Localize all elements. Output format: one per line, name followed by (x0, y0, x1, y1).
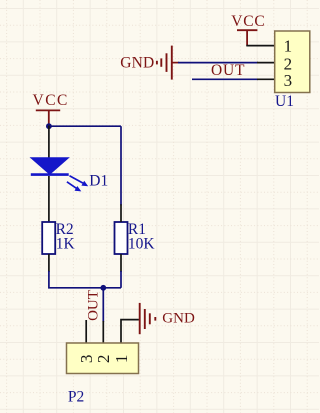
pin U1-3 (257, 78, 275, 80)
pin LED to R2 (48, 176, 50, 222)
connector U1 (275, 31, 310, 93)
svg-text:D1: D1 (89, 173, 108, 190)
svg-text:2: 2 (94, 355, 113, 364)
ground GND (U1) (120, 46, 179, 80)
pin P2-2 (102, 321, 104, 343)
wire GND to U1 pin 2 (178, 62, 258, 64)
LED D1 (31, 158, 88, 191)
wire/pin VCC node down to LED (48, 126, 50, 159)
pin P2-3 (85, 320, 87, 343)
svg-text:GND: GND (162, 311, 195, 327)
pin R1 top (120, 204, 122, 222)
svg-text:U1: U1 (275, 93, 294, 110)
svg-text:OUT: OUT (85, 290, 101, 321)
wire R1 to bottom rail (120, 271, 122, 288)
svg-text:GND: GND (120, 54, 154, 71)
svg-text:VCC: VCC (231, 13, 265, 30)
svg-text:VCC: VCC (33, 92, 69, 109)
wire VCC to U1 pin 1 (246, 45, 274, 47)
svg-text:3: 3 (284, 71, 293, 90)
resistor R2 (42, 222, 55, 254)
connector P2 (67, 343, 139, 374)
pin P2-1 and wire to GND (121, 320, 139, 343)
wire R2 to bottom rail (49, 271, 121, 288)
junction node (VCC) (46, 123, 52, 129)
svg-text:P2: P2 (68, 389, 84, 406)
svg-text:10K: 10K (128, 235, 155, 252)
resistor R1 (115, 222, 128, 254)
pin U1-2 (257, 62, 275, 64)
wire node down to P2 pin 2 (102, 288, 104, 322)
svg-text:1: 1 (112, 355, 131, 364)
pin R2 bottom (48, 254, 50, 272)
power symbol VCC (U1) (231, 13, 265, 46)
svg-text:OUT: OUT (211, 62, 245, 79)
pin R1 bottom (120, 254, 122, 272)
wire right branch down to R1 (120, 126, 122, 205)
wire OUT to U1 pin 3 (192, 78, 258, 80)
power symbol VCC (left) (33, 92, 69, 125)
svg-text:1K: 1K (56, 235, 76, 252)
ground GND (P2) (140, 303, 195, 334)
svg-text:1: 1 (284, 36, 293, 55)
junction node (bottom rail) (100, 285, 106, 291)
wire VCC node to right branch (49, 125, 121, 127)
